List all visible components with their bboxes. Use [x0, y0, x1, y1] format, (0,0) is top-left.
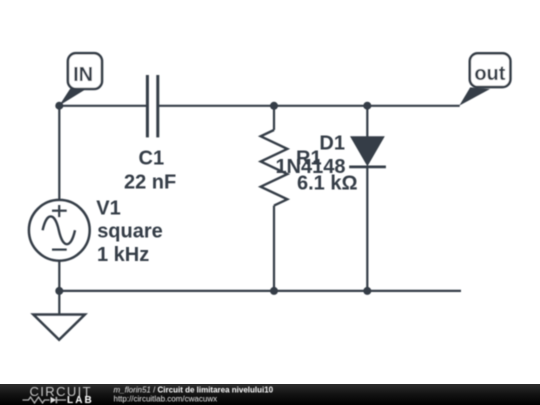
- svg-text:m_florin51 / Circuit de limita: m_florin51 / Circuit de limitarea nivelu…: [114, 385, 274, 394]
- svg-text:1N4148: 1N4148: [275, 156, 345, 178]
- svg-text:IN: IN: [73, 64, 93, 86]
- svg-text:22 nF: 22 nF: [124, 172, 176, 194]
- svg-text:LAB: LAB: [67, 395, 94, 405]
- svg-text:square: square: [97, 221, 163, 243]
- svg-text:D1: D1: [319, 133, 345, 155]
- svg-text:V1: V1: [96, 198, 120, 220]
- svg-text:C1: C1: [139, 148, 165, 170]
- svg-text:http://circuitlab.com/cwacuwx: http://circuitlab.com/cwacuwx: [114, 394, 218, 403]
- svg-text:1 kHz: 1 kHz: [97, 244, 149, 266]
- svg-text:out: out: [474, 63, 505, 85]
